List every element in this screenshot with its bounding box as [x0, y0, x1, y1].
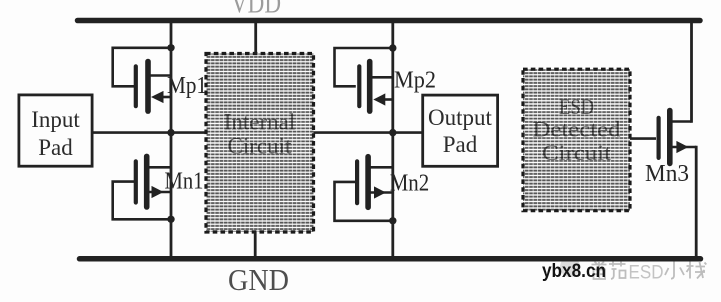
Mn1 arrow (points away from channel) — [152, 186, 164, 198]
wire: Mn3 drain to VDD — [690, 21, 693, 123]
Mn1 gate loop wire — [113, 182, 171, 220]
Internal Circuit block (dashed, hatched) — [206, 54, 314, 233]
svg-text:Mn1: Mn1 — [165, 167, 204, 194]
node: input pad line junction — [167, 129, 174, 136]
transistor Mn2 (NMOS, gate to GND) — [335, 157, 393, 221]
wire: column 1 (VDD to GND through Mp1/Mn1) — [170, 21, 173, 259]
svg-text:ESD: ESD — [629, 262, 664, 284]
Mp1 drain lead — [159, 96, 171, 99]
Mn1 source lead — [149, 191, 171, 194]
transistor Mn1 (NMOS, gate to GND) — [113, 156, 171, 219]
Mp2 gate loop wire — [335, 48, 393, 86]
svg-text:GND: GND — [228, 262, 289, 297]
ESD Detected Circuit block (dashed, hatched) — [523, 69, 630, 211]
svg-text:Mn3: Mn3 — [645, 160, 689, 187]
watermark logo circle — [560, 257, 580, 277]
Mp1 gate loop wire — [113, 48, 171, 87]
Mn2 gate loop wire — [335, 182, 393, 221]
wire: Internal Circuit to Output Pad (I/O line right) — [314, 131, 424, 134]
Mp2 source lead — [372, 76, 393, 79]
svg-text:VDD: VDD — [231, 0, 281, 20]
svg-text:Pad: Pad — [443, 132, 478, 157]
wire: ESD circuit output to Mn3 gate — [630, 137, 656, 140]
VDD rail — [78, 18, 701, 24]
watermark glyph 小 — [665, 262, 684, 279]
Mp1 source lead — [150, 74, 171, 77]
transistor Mn3 (ESD clamp NMOS) — [659, 21, 697, 259]
node: Mp1 source/gate node — [167, 44, 174, 51]
Mn3 drain lead — [672, 120, 692, 123]
Mn3 arrow (points away from channel) — [676, 141, 688, 153]
svg-text:Mp2: Mp2 — [394, 66, 436, 93]
Mn1 gate bar — [134, 161, 138, 202]
Mp2 gate bar — [357, 66, 361, 106]
svg-text:ybx8.cn: ybx8.cn — [542, 260, 606, 282]
Mn3 source lead — [672, 146, 696, 149]
node: Mn2 source/gate node — [389, 217, 396, 224]
wire: Internal Circuit to VDD — [254, 21, 257, 55]
Mp2 drain lead — [381, 98, 393, 101]
Mn2 gate bar — [355, 161, 359, 203]
Output Pad box — [423, 95, 498, 166]
Mp1 channel bar — [145, 62, 151, 112]
transistor Mp2 (PMOS, gate to VDD) — [335, 48, 393, 111]
watermark glyph 番 (vector, gray) — [592, 262, 607, 280]
Mn3 gate bar — [656, 118, 660, 158]
Mn2 source lead — [371, 191, 393, 194]
GND rail — [80, 256, 701, 262]
Input Pad box — [19, 95, 92, 166]
wire: Mn3 source to GND — [695, 146, 698, 259]
Mn1 channel bar — [144, 156, 150, 207]
transistor Mp1 (PMOS, gate to VDD) — [113, 48, 171, 111]
node: Mn1 source/gate node — [167, 216, 174, 223]
watermark glyph 栈 — [687, 262, 707, 279]
Mn1 drain lead — [149, 166, 171, 169]
wire: column 2 (VDD to GND through Mp2/Mn2) — [391, 21, 394, 259]
wire: Input Pad to Internal Circuit (I/O line left) — [92, 131, 206, 134]
Mp2 arrow (points into channel) — [373, 93, 385, 105]
Mn2 channel bar — [365, 157, 371, 208]
Mn2 arrow (points away from channel) — [374, 186, 386, 198]
Mn2 drain lead — [371, 166, 393, 169]
node: output pad line junction — [389, 129, 396, 136]
svg-text:Output: Output — [428, 105, 493, 130]
wire: Internal Circuit to GND — [254, 232, 257, 259]
Mn3 channel bar — [667, 111, 673, 164]
Mp1 arrow (points into channel) — [151, 91, 164, 103]
Mp2 channel bar — [367, 62, 373, 112]
node: Mp2 source/gate node — [389, 44, 396, 51]
svg-text:Pad: Pad — [38, 135, 73, 160]
Mp1 gate bar — [134, 66, 138, 106]
svg-text:Input: Input — [31, 107, 80, 132]
svg-text:Mp1: Mp1 — [167, 72, 207, 99]
svg-text:Mn2: Mn2 — [390, 170, 430, 197]
watermark glyph 茄 — [609, 262, 626, 280]
